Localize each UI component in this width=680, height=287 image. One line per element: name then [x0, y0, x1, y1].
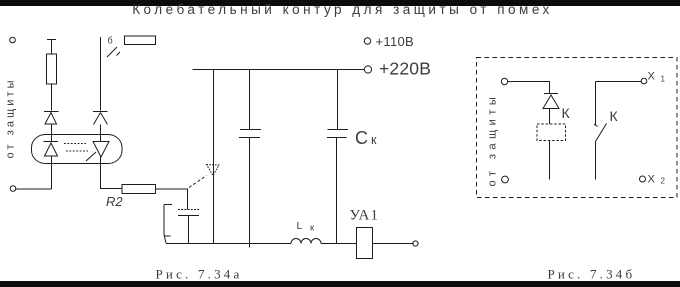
wire: R2 to capacitor branch	[156, 189, 188, 210]
resistor (top, unlabeled)	[125, 36, 156, 45]
wire: relay box lower lead	[549, 141, 551, 180]
wire: terminal to diode branch	[508, 82, 550, 94]
terminal X2	[640, 176, 646, 182]
svg-text:б: б	[108, 36, 113, 46]
svg-text:Х: Х	[648, 71, 656, 83]
wiper dashed lead	[189, 176, 207, 188]
wire: vertical branch x=100 upper	[100, 37, 102, 111]
wire: oval to R2	[101, 164, 123, 189]
diode D1	[44, 112, 59, 135]
contact K fixed lead	[594, 82, 598, 127]
svg-text:1: 1	[661, 75, 666, 84]
arrester right electrode	[93, 135, 109, 164]
arrester gap plates	[64, 144, 88, 152]
terminal: output	[413, 241, 418, 246]
svg-text:к: к	[310, 223, 315, 234]
capacitor C1	[239, 70, 261, 248]
wire: fuse to output terminal	[373, 243, 414, 245]
svg-text:Рис. 7.34а: Рис. 7.34а	[156, 267, 243, 282]
svg-text:от защиты: от защиты	[487, 93, 499, 187]
diode D2	[93, 112, 108, 135]
svg-text:к: к	[371, 133, 377, 147]
inductor Lk	[291, 239, 321, 244]
resistor R1 (vertical, top left)	[47, 40, 56, 111]
terminal +110V	[364, 38, 370, 44]
relay element dashed box	[537, 124, 566, 141]
resistor R2 (horizontal)	[122, 185, 156, 194]
wire: LC tank top rail	[193, 69, 365, 71]
svg-text:+110В: +110В	[376, 34, 415, 49]
svg-text:Колебательный контур для защит: Колебательный контур для защиты от помех	[132, 2, 553, 17]
wiper arrowhead	[207, 165, 220, 176]
terminal: top-left input	[10, 37, 16, 43]
arrester left electrode	[44, 135, 59, 164]
capacitor C3 (below R2 wire)	[178, 209, 200, 211]
enclosure: dashed box (fig b)	[477, 58, 678, 198]
wire: X1 branch	[596, 81, 642, 83]
arrester (gas-discharge tube, oval)	[32, 135, 123, 164]
svg-text:2: 2	[661, 177, 666, 186]
terminal +220V	[364, 66, 371, 73]
svg-text:К: К	[610, 108, 619, 124]
svg-text:от защиты: от защиты	[5, 77, 17, 158]
switch lever	[107, 47, 120, 57]
wire: tank bottom rail left	[166, 243, 291, 245]
svg-text:УА1: УА1	[350, 208, 380, 224]
svg-text:L: L	[297, 220, 303, 232]
terminal: box upper left	[501, 78, 507, 84]
wire: tank left vertical	[213, 70, 215, 244]
svg-text:Рис. 7.34б: Рис. 7.34б	[548, 267, 636, 282]
fuse УА1	[357, 228, 373, 259]
diode VD (in box)	[543, 94, 559, 125]
wire: oval to bottom-left terminal	[51, 164, 53, 190]
svg-text:R2: R2	[106, 194, 123, 209]
svg-text:Х: Х	[648, 174, 656, 186]
wire: contact lower lead	[595, 142, 597, 180]
svg-text:+220В: +220В	[379, 59, 431, 79]
wire: bottom-left terminal to R1 branch	[16, 188, 52, 190]
arrester diagonal stroke	[86, 152, 96, 161]
terminal X1	[641, 78, 647, 84]
open stub branch	[164, 205, 172, 244]
terminal: box lower left	[502, 176, 509, 183]
capacitor Ck	[327, 70, 348, 244]
wire: bottom rail to fuse	[321, 243, 357, 245]
contact K lever	[596, 124, 607, 142]
svg-text:C: C	[355, 128, 368, 148]
svg-text:К: К	[562, 105, 571, 121]
terminal: bottom-left input	[10, 186, 16, 192]
